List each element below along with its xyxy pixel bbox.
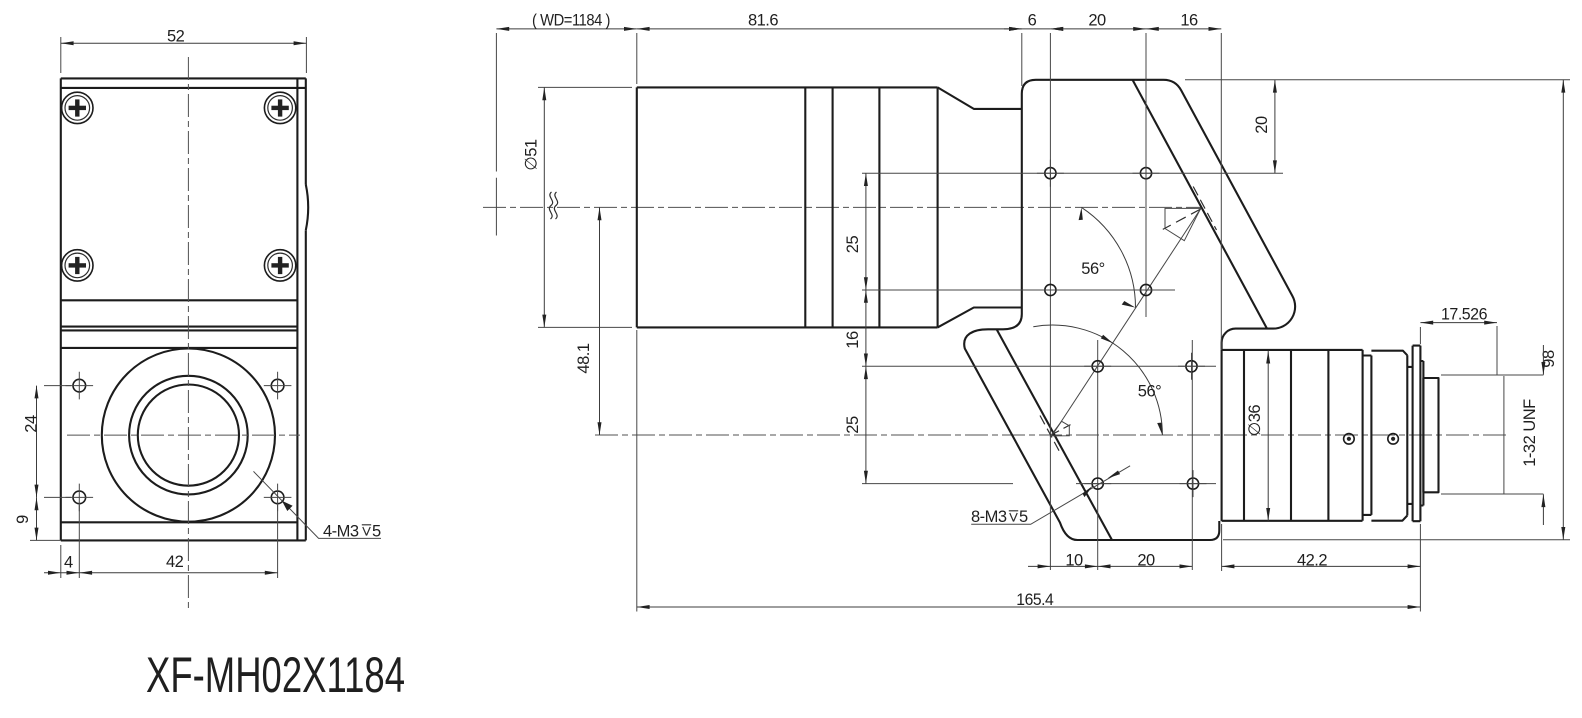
lens opening circles <box>102 349 275 522</box>
hole cross ticks C2 <box>1178 353 1205 380</box>
mounting hole top-right <box>271 379 284 392</box>
dim dia36 <box>1246 351 1270 521</box>
svg-text:XF-MH02X1184: XF-MH02X1184 <box>146 647 405 703</box>
top edge extension line <box>1185 79 1570 81</box>
hole cross ticks D2 <box>1180 470 1207 497</box>
svg-text:81.6: 81.6 <box>748 12 778 30</box>
small barrel focus ring <box>1371 351 1407 521</box>
LEFT-VIEW <box>14 28 381 611</box>
head block outline <box>1022 80 1295 350</box>
svg-text:25: 25 <box>844 236 862 254</box>
dim 20 right <box>1253 80 1277 173</box>
svg-text:48.1: 48.1 <box>575 343 593 373</box>
screw B top-right <box>264 92 295 123</box>
dim stack 25 16 25 <box>844 173 868 483</box>
svg-text:( WD=1184 ): ( WD=1184 ) <box>532 12 610 30</box>
barrel set screw 1 <box>1344 434 1355 445</box>
mounting hole bottom-left <box>73 491 86 504</box>
svg-text:165.4: 165.4 <box>1016 591 1053 609</box>
screw C bottom-left <box>62 250 93 281</box>
hole row line y483 <box>862 483 1216 485</box>
dim dia51 <box>523 87 633 327</box>
dim 20 top <box>1050 12 1146 31</box>
hole cross ticks A2 <box>1133 160 1160 187</box>
dim 17.526 <box>1420 306 1497 375</box>
barrel neck taper <box>938 87 1022 327</box>
hole D1 <box>1092 478 1103 489</box>
axis break squiggle <box>549 192 557 219</box>
SIDE-VIEW <box>483 12 1570 612</box>
svg-text:9: 9 <box>14 515 32 524</box>
svg-text:10: 10 <box>1065 551 1083 569</box>
hole row line y366 <box>862 365 1216 367</box>
hole row line y290 <box>862 289 1175 291</box>
dim 10 bottom <box>1028 551 1098 569</box>
barrel set screw 2 <box>1388 434 1399 445</box>
mirror 1 plane dashed <box>1163 209 1201 229</box>
svg-text:20: 20 <box>1088 12 1106 30</box>
hole A1 <box>1045 168 1056 179</box>
hole column x1192 <box>1191 340 1193 570</box>
svg-text:∅51: ∅51 <box>523 139 541 171</box>
side bulge arc <box>306 185 308 231</box>
svg-text:5: 5 <box>1019 508 1028 526</box>
mid double line <box>61 327 298 331</box>
dim 48.1 <box>575 207 602 435</box>
mounting hole top-left <box>73 379 86 392</box>
screw A top-left <box>62 92 93 123</box>
mounting hole bottom-right <box>271 491 284 504</box>
mirror 2 prism mark <box>1051 421 1070 436</box>
big lens barrel <box>637 87 938 327</box>
slot left wall S-curve and foot outer edge <box>964 314 1077 540</box>
slot right wall foot inner edge <box>997 329 1112 540</box>
dim 98 <box>1540 80 1565 540</box>
optical axis 2 <box>595 434 1507 436</box>
hole C2 <box>1186 361 1197 372</box>
svg-text:1-32 UNF: 1-32 UNF <box>1521 399 1539 467</box>
angle arc 56 deg lower <box>1033 325 1162 435</box>
mirror 2 plane dashed <box>1052 425 1071 435</box>
dim 9 <box>14 497 61 540</box>
hole cross ticks C1 <box>1084 365 1111 367</box>
head inner diagonal edge <box>1133 80 1268 329</box>
svg-text:25: 25 <box>844 416 862 434</box>
svg-text:56°: 56° <box>1081 260 1104 278</box>
dim 4 and 42 bottom <box>44 505 278 578</box>
sensor plane line <box>1503 376 1505 494</box>
hole cross ticks D1 <box>1084 483 1111 485</box>
vertical centerline <box>187 57 189 610</box>
dim 52 <box>61 28 307 74</box>
svg-text:4: 4 <box>64 554 73 572</box>
svg-text:5: 5 <box>372 523 381 541</box>
dim 24 <box>23 386 72 498</box>
thread reference lines <box>1441 375 1543 494</box>
label 8-M3 depth 5 <box>971 466 1130 526</box>
small barrel thin ring <box>1363 356 1372 515</box>
svg-text:42: 42 <box>166 553 184 571</box>
body outline left view <box>61 78 306 540</box>
beam axis between mirrors <box>1052 207 1201 435</box>
dim 81.6 <box>637 12 1022 85</box>
optical axis 1 <box>483 206 1202 208</box>
svg-text:17.526: 17.526 <box>1441 306 1487 324</box>
svg-text:8-M3: 8-M3 <box>971 508 1007 526</box>
angle arc 56 deg upper <box>1082 207 1136 307</box>
thread nose <box>1423 378 1438 492</box>
svg-text:20: 20 <box>1253 116 1271 134</box>
screw D bottom-right <box>264 250 295 281</box>
svg-text:4-M3: 4-M3 <box>323 523 359 541</box>
hole D2 <box>1187 478 1198 489</box>
svg-text:42.2: 42.2 <box>1297 551 1327 569</box>
svg-text:6: 6 <box>1028 12 1037 30</box>
svg-text:56°: 56° <box>1138 383 1161 401</box>
horizontal centerline <box>67 434 300 436</box>
bottom edge extension line <box>1223 539 1570 541</box>
svg-text:52: 52 <box>167 28 185 46</box>
hole cross ticks B1 <box>1037 289 1064 291</box>
dim WD=1184 <box>496 12 636 236</box>
label 4-M3 depth 5 <box>254 471 382 540</box>
dim 1-32 UNF extent <box>1521 345 1546 525</box>
svg-text:16: 16 <box>844 331 862 349</box>
head bottom edge <box>1078 521 1220 540</box>
small barrel rear ring <box>1407 367 1412 504</box>
hole column x1098 <box>1097 340 1099 570</box>
dim 16 top <box>1146 12 1221 350</box>
mirror 1 prism mark <box>1165 208 1201 240</box>
small lens barrel flange and body <box>1222 350 1363 521</box>
mirror 2 hidden edge <box>1040 416 1060 453</box>
dim 165.4 <box>637 330 1421 612</box>
mirror 1 hidden edge <box>1193 187 1216 231</box>
dim 20 bottom <box>1098 551 1193 569</box>
hole A2 <box>1140 168 1151 179</box>
dim 6 <box>1004 12 1063 87</box>
mount plate <box>1413 346 1421 522</box>
spacer ring <box>1420 361 1423 506</box>
dim 42.2 <box>1222 524 1421 571</box>
hole row line y173 <box>862 172 1283 174</box>
svg-text:∅36: ∅36 <box>1246 405 1264 437</box>
hole cross ticks B2 <box>1133 289 1160 291</box>
hole column x1146 <box>1145 33 1147 317</box>
hole column x1050 <box>1049 33 1051 570</box>
svg-text:16: 16 <box>1180 12 1198 30</box>
hole B2 <box>1140 284 1151 295</box>
svg-text:24: 24 <box>23 415 41 433</box>
hole cross ticks A1 <box>1037 160 1064 187</box>
hole B1 <box>1045 284 1056 295</box>
hole C1 <box>1092 361 1103 372</box>
svg-text:20: 20 <box>1137 551 1155 569</box>
